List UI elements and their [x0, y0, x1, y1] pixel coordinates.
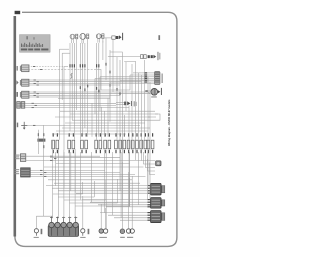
stair wires to right blocks: [142, 149, 156, 175]
ignition switch: [122, 55, 156, 59]
block pin contacts: [147, 186, 150, 221]
right connector block: [154, 71, 160, 84]
connector 3 (right switch): [16, 91, 29, 98]
rear brake switch: [156, 161, 161, 166]
lamp left turn signal: [70, 34, 78, 43]
page number block: [15, 11, 21, 14]
CDI unit: [151, 198, 165, 209]
corner wires: [64, 52, 151, 94]
diagram border frame: [15, 12, 177, 246]
diode label: [134, 101, 137, 106]
wires below junction row: [56, 152, 148, 218]
lamp feed corners: [60, 49, 136, 100]
connector pins: [144, 73, 154, 82]
lamp wire code ticks: [69, 63, 120, 95]
bottom component labels: [34, 237, 86, 238]
mesh corner wires: [95, 77, 160, 120]
flasher label: [151, 96, 157, 97]
connector label: [162, 74, 163, 84]
splice connectors: [37, 133, 45, 148]
battery label: [14, 169, 19, 174]
regulator rectifier: [151, 183, 165, 195]
svg-text:Wiring diagram - US/CD 88-97 m: Wiring diagram - US/CD 88-97 models: [167, 99, 171, 146]
starter magnetic switch: [151, 211, 165, 223]
connector 4 (meter): [17, 102, 25, 109]
diode unit: [116, 101, 131, 106]
lamp right turn signal: [96, 34, 104, 43]
connector 2 (left switch): [16, 79, 29, 86]
horn: [105, 33, 123, 40]
starter relay label: [15, 155, 20, 160]
left binding bar: [14, 16, 17, 237]
alternator: [126, 229, 134, 238]
fuse symbol: [17, 122, 28, 130]
vertical harness wires: [38, 38, 150, 216]
starter relay: [20, 154, 25, 162]
left spark plug: [34, 229, 42, 236]
wire loop: [71, 73, 73, 78]
wire colour-code ticks: [32, 67, 57, 177]
oil pressure switch: [120, 229, 125, 238]
ignition coil bank: [48, 217, 78, 237]
neutral switch: [99, 229, 108, 238]
horizontal harness wires: [25, 57, 158, 221]
manufacturer logo box: [20, 35, 51, 53]
ignition switch label: [157, 52, 160, 60]
mid junction connector row: [52, 133, 154, 153]
label near top-right: [158, 35, 160, 40]
flasher relay: [145, 88, 161, 95]
lamp headlight: [80, 34, 89, 44]
connector 1 (headlight): [17, 65, 29, 72]
coil feed wires: [36, 140, 132, 229]
battery: [21, 168, 31, 177]
right spark plug: [81, 229, 90, 236]
